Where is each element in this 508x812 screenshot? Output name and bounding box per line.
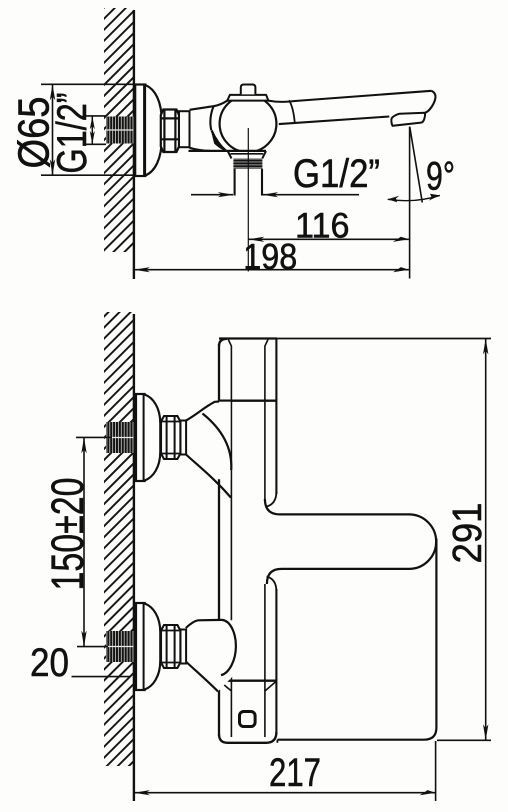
outlet thread (dark): [233, 158, 262, 168]
centerline: [247, 128, 249, 272]
dim 20 extension line: [72, 676, 131, 678]
crescent at lower-left of sphere: [212, 130, 226, 150]
spout tip extension line: [409, 127, 411, 279]
9 deg arc with arrows: [388, 194, 440, 202]
extension line bottom (dia 65): [41, 174, 135, 176]
svg-text:20: 20: [30, 641, 69, 685]
cartridge stem cap: [241, 85, 256, 95]
escutcheon dome (top view): [145, 85, 162, 176]
nut: [161, 416, 180, 459]
wall hatch (top view): [104, 8, 134, 252]
dim 217 line: [134, 790, 436, 795]
body top edge + 291 top extension: [219, 338, 491, 340]
svg-text:116: 116: [295, 205, 350, 245]
column inner left line + chamfer: [228, 340, 231, 738]
outlet G1/2 dim line w arrows: [191, 192, 359, 197]
hook fillets at slot: [267, 492, 277, 507]
threaded wall pipe (dark, top view): [106, 117, 134, 144]
wall face line (bottom view): [133, 314, 135, 801]
9 deg slant line: [410, 127, 423, 203]
spout (top view): [268, 91, 435, 124]
outlet pipe: [234, 169, 236, 196]
svg-text:G1/2”: G1/2”: [48, 93, 95, 174]
elbow: [186, 402, 231, 480]
dim 150+-20 extension lines: [76, 436, 112, 438]
valve body sphere (top view): [220, 95, 277, 152]
dim 291 extension bottom: [437, 739, 491, 741]
casing band around sphere left: [210, 106, 213, 130]
extension line top (dia 65): [41, 83, 135, 85]
aerator tip: [391, 113, 425, 126]
threaded pipe: [106, 422, 134, 453]
dim 291 line: [483, 339, 488, 741]
column outer left edge: [219, 339, 227, 346]
thread dim arrows: [90, 116, 95, 144]
escutcheon plate: [136, 394, 145, 481]
outlet collar (white over sphere bottom): [228, 151, 266, 159]
connector cylinder: [180, 421, 186, 455]
dim 150+-20 line: [81, 437, 86, 646]
column bottom: [219, 732, 276, 743]
escutcheon plate (top view): [135, 85, 145, 177]
bottom block chamfers: [220, 682, 231, 692]
wall face line (top view): [133, 10, 135, 279]
svg-text:291: 291: [444, 503, 490, 564]
nut (top view): [161, 110, 179, 153]
dimension line dia65: [50, 84, 55, 175]
svg-text:198: 198: [243, 236, 297, 277]
valve body neck (top view): [190, 101, 228, 151]
escutcheon dome: [145, 395, 161, 481]
dim 198: [134, 267, 409, 272]
spout arm (bottom view): [265, 499, 436, 584]
column inner right line + chamfer: [265, 340, 268, 500]
dim 116: [248, 237, 409, 242]
column joint lines: [219, 400, 277, 402]
wall hatch (bottom view): [104, 312, 134, 766]
dim 217 extension right: [435, 741, 437, 801]
top flange (white over sphere): [227, 95, 268, 101]
thread extension lines (wall pipe): [84, 115, 106, 117]
connector cylinder (top view): [179, 111, 190, 147]
column outer right line: [275, 339, 277, 494]
svg-text:9°: 9°: [426, 155, 455, 199]
svg-text:G1/2”: G1/2”: [293, 152, 380, 196]
diverter hole: [240, 712, 256, 727]
svg-text:217: 217: [269, 751, 321, 795]
svg-text:150±20: 150±20: [42, 478, 93, 591]
lower body right edge and bottom: [277, 539, 436, 740]
